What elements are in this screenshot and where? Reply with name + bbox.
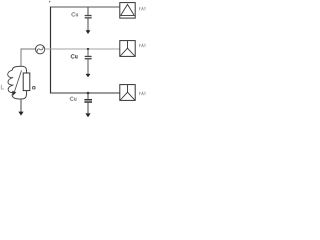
label L bbox=[1, 85, 4, 89]
capacitor Cu1 bbox=[85, 15, 92, 16]
wire middle left segment bbox=[21, 49, 36, 66]
node b tick bbox=[49, 1, 50, 3]
label Cu1 bbox=[72, 13, 78, 17]
node dot bottom bbox=[87, 92, 90, 95]
label Cu2 bbox=[71, 55, 77, 59]
capacitor Cu1 lead bbox=[87, 7, 89, 15]
source G1 (AC) bbox=[36, 45, 45, 54]
wire tank split top bbox=[12, 66, 26, 73]
label W1 bbox=[139, 7, 145, 10]
ground arrow tank bbox=[18, 112, 23, 116]
transducer W3 box bbox=[120, 85, 135, 101]
label W2 bbox=[139, 44, 145, 47]
node dot mid bbox=[87, 48, 89, 50]
capacitor Cu2 bbox=[85, 56, 92, 57]
label a bbox=[32, 86, 35, 89]
ground arrow Cu2 bbox=[86, 74, 91, 77]
capacitor Cu2 lead bbox=[87, 49, 89, 56]
wire tank down lead bbox=[20, 99, 22, 113]
wire middle right segment bbox=[45, 48, 120, 50]
resistor Ra bbox=[23, 73, 30, 91]
transducer W1 box bbox=[120, 3, 135, 19]
label Cu3 bbox=[70, 97, 76, 101]
transducer W2 box bbox=[120, 41, 135, 57]
wire top horizontal bbox=[51, 6, 120, 8]
arrow variable (through L) bbox=[15, 71, 22, 92]
capacitor Cu3 bbox=[84, 99, 92, 101]
wire vertical bus bbox=[50, 7, 52, 94]
label W3 bbox=[139, 92, 145, 95]
ground arrow Cu3 bbox=[85, 113, 90, 117]
capacitor Cu3 lead bbox=[87, 93, 89, 99]
wire tank join bottom bbox=[12, 91, 27, 99]
inductor L bbox=[8, 70, 14, 94]
ground arrow Cu1 bbox=[86, 30, 91, 34]
wire bottom horizontal bbox=[51, 92, 120, 94]
